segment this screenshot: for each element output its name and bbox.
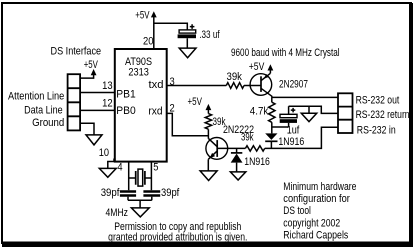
svg-text:39k: 39k	[213, 116, 226, 128]
wire pin5 to crystal	[150, 163, 152, 191]
svg-text:9600 baud with 4 MHz Crystal: 9600 baud with 4 MHz Crystal	[231, 47, 340, 59]
wire R2 bottom node to C2	[272, 123, 289, 127]
capacitor C4 39pf (right)	[143, 192, 160, 201]
svg-text:DS Interface: DS Interface	[51, 46, 102, 58]
transistor Q2 2N2222	[206, 138, 228, 160]
svg-text:+5V: +5V	[249, 61, 265, 73]
resistor R4 39k	[245, 146, 264, 151]
svg-text:4: 4	[117, 162, 122, 174]
svg-text:rxd: rxd	[148, 106, 162, 118]
note minimum hardware block	[283, 181, 356, 241]
wire crystal caps to ground	[128, 200, 152, 208]
+5V supply arrow (J1)	[84, 59, 99, 75]
svg-text:+5V: +5V	[84, 59, 99, 71]
diode D2 1N916	[265, 127, 277, 148]
ground (C2 return)	[301, 113, 316, 121]
wire pin10 to ground	[108, 159, 116, 168]
ground (crystal)	[131, 208, 149, 217]
+5V supply arrow (Q1 emitter)	[249, 61, 274, 73]
svg-text:4.7k: 4.7k	[250, 106, 269, 118]
wire data line J1 to PB0 pin12	[80, 109, 115, 111]
svg-text:1uf: 1uf	[287, 125, 300, 137]
svg-text:13: 13	[102, 80, 113, 92]
svg-text:2313: 2313	[128, 67, 149, 79]
resistor R3 39k	[205, 114, 211, 130]
wire J1 pin1 to +5V	[80, 72, 94, 79]
svg-text:2N2222: 2N2222	[223, 124, 254, 136]
svg-text:3: 3	[170, 76, 175, 88]
capacitor C2 1uf	[280, 106, 297, 123]
svg-text:4MHz: 4MHz	[106, 207, 129, 219]
+5V supply arrow (pin 20)	[135, 10, 156, 22]
svg-text:1N916: 1N916	[244, 156, 270, 168]
ground (J1)	[86, 135, 102, 145]
wire rxd pin2 to Q2 collector	[167, 113, 209, 138]
svg-text:Data Line: Data Line	[24, 105, 63, 117]
svg-text:39pf: 39pf	[101, 187, 121, 199]
svg-text:39pf: 39pf	[161, 187, 180, 199]
wire Q1 collector to RS-232 out	[272, 96, 338, 98]
resistor R1 39k	[226, 83, 244, 89]
IC U1 AT90S2313 body	[115, 49, 167, 162]
ground (pin 10)	[99, 168, 116, 177]
wire txd pin3 to R1	[167, 85, 227, 87]
wire pin4 to crystal	[128, 163, 130, 191]
resistor R2 4.7k	[269, 97, 275, 127]
svg-text:2N2907: 2N2907	[279, 79, 308, 91]
svg-text:+5V: +5V	[135, 10, 150, 22]
svg-text:Attention Line: Attention Line	[8, 91, 64, 103]
+5V supply arrow (R3)	[188, 96, 212, 110]
svg-text:RS-232 out: RS-232 out	[356, 95, 400, 107]
svg-text:10: 10	[99, 147, 109, 159]
svg-text:39k: 39k	[227, 71, 243, 83]
wire R1 to Q1 base	[244, 85, 261, 87]
ground (under C1)	[179, 48, 196, 58]
wire R4 to Q2 base	[217, 147, 245, 149]
svg-text:Minimum hardware: Minimum hardware	[283, 181, 356, 193]
svg-text:configuration for: configuration for	[283, 193, 350, 205]
svg-text:+5V: +5V	[188, 96, 203, 108]
diode D1 1N916	[231, 148, 243, 172]
wire C2 top to RS-232 return	[289, 106, 338, 113]
svg-text:PB0: PB0	[116, 105, 136, 117]
wire RS-232 in net	[265, 127, 338, 148]
capacitor C1 .33uf	[178, 24, 196, 48]
wire Q1 emitter to +5V	[269, 70, 271, 73]
svg-text:1N916: 1N916	[278, 136, 304, 148]
crystal Y1 4MHz	[129, 169, 152, 186]
ground (Q2 emitter)	[200, 171, 217, 181]
svg-text:txd: txd	[149, 79, 164, 91]
svg-text:copyright 2002: copyright 2002	[283, 217, 340, 229]
wire R3 top to +5V	[207, 109, 209, 113]
ground (D1)	[230, 172, 245, 180]
svg-text:Richard Cappels: Richard Cappels	[283, 229, 348, 241]
wire pin20 to +5V and C1	[154, 15, 188, 49]
svg-text:RS-232 in: RS-232 in	[357, 125, 396, 137]
wire Q2 emitter to ground	[207, 159, 209, 171]
transistor Q1 2N2907	[250, 73, 272, 97]
capacitor C3 39pf (left)	[120, 192, 136, 201]
svg-text:PB1: PB1	[116, 89, 136, 101]
svg-text:.33 uf: .33 uf	[199, 29, 220, 41]
svg-text:12: 12	[102, 98, 113, 110]
wire attention line J1 to PB1 pin13	[80, 92, 115, 94]
svg-text:20: 20	[143, 36, 154, 48]
wire J1 ground	[80, 123, 94, 135]
svg-text:DS tool: DS tool	[283, 205, 311, 217]
svg-text:Ground: Ground	[32, 117, 64, 129]
svg-text:RS-232 return: RS-232 return	[356, 109, 410, 121]
svg-text:5: 5	[153, 162, 158, 174]
connector J2 RS-232	[338, 93, 353, 133]
connector J1 DS interface	[68, 74, 81, 130]
svg-text:granted provided attribution i: granted provided attribution is given.	[108, 231, 247, 243]
